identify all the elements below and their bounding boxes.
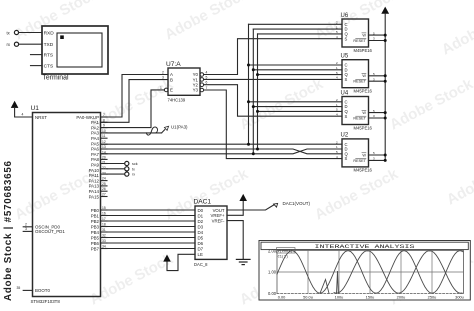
svg-text:RTS: RTS xyxy=(44,52,54,58)
svg-text:Adobe Stock: Adobe Stock xyxy=(444,150,474,208)
svg-text:D4: D4 xyxy=(198,230,204,235)
svg-text:D5: D5 xyxy=(198,235,204,240)
svg-text:U1: U1 xyxy=(31,105,40,112)
svg-text:S: S xyxy=(345,156,348,161)
scope trace C1 glitch xyxy=(320,271,338,293)
svg-text:D7: D7 xyxy=(198,246,204,251)
wire VREF+ to VCC xyxy=(227,201,243,216)
wire Y3 to U2 S xyxy=(204,90,342,159)
wire VREF- to ground xyxy=(227,221,243,260)
svg-text:rx: rx xyxy=(132,173,135,177)
svg-text:W: W xyxy=(362,74,366,78)
svg-text:21: 21 xyxy=(102,161,106,165)
svg-text:CTS: CTS xyxy=(44,63,54,69)
svg-text:D1: D1 xyxy=(198,213,204,218)
svg-text:DAC_8: DAC_8 xyxy=(194,262,208,267)
svg-text:rx: rx xyxy=(7,42,11,47)
svg-text:D3: D3 xyxy=(198,224,204,229)
svg-text:35: 35 xyxy=(17,286,21,290)
svg-text:LE: LE xyxy=(198,252,203,257)
node rx terminal PA11 xyxy=(125,172,129,176)
svg-text:PB3: PB3 xyxy=(91,224,100,229)
wire PA5 sck row to U2 C xyxy=(101,143,343,145)
svg-text:PA15: PA15 xyxy=(89,194,100,199)
svg-text:4: 4 xyxy=(206,71,208,75)
svg-text:RESET: RESET xyxy=(353,159,366,163)
svg-text:W: W xyxy=(362,111,366,115)
svg-text:RXD: RXD xyxy=(44,30,55,36)
svg-text:M45PE16: M45PE16 xyxy=(354,89,373,94)
wire Y2 to U4 S xyxy=(204,85,342,117)
svg-text:PA4: PA4 xyxy=(91,136,100,141)
wire LE to VCC arrow xyxy=(167,254,195,270)
U7 pin labels xyxy=(170,72,173,92)
scope plot frame xyxy=(277,251,464,294)
U7 E inverter bubble xyxy=(164,88,168,92)
wire U5 D feed xyxy=(253,69,342,71)
U7 Y0 bubble xyxy=(200,73,204,77)
U1 pin labels right PA0..PA15 PB0..PB7 xyxy=(76,115,99,252)
svg-text:34: 34 xyxy=(102,245,106,249)
scope gridlines xyxy=(277,251,464,294)
svg-text:0.00: 0.00 xyxy=(278,295,286,300)
svg-text:PA6: PA6 xyxy=(91,147,100,152)
svg-text:PB4: PB4 xyxy=(91,230,100,235)
svg-text:E: E xyxy=(170,88,173,93)
scope x axis labels xyxy=(278,295,464,300)
svg-text:1.00: 1.00 xyxy=(268,270,277,275)
node tx terminal xyxy=(14,30,18,34)
offpage squiggle U1(PA3) xyxy=(146,127,165,135)
svg-text:PA3: PA3 xyxy=(91,131,100,136)
svg-text:S: S xyxy=(345,77,348,82)
svg-text:100u: 100u xyxy=(335,295,344,300)
scope window frame xyxy=(259,241,470,301)
svg-text:6: 6 xyxy=(206,81,208,85)
flash U2 xyxy=(336,133,385,173)
wire U6 C feed xyxy=(249,23,343,25)
svg-text:3: 3 xyxy=(25,227,27,231)
wire tx to RXD xyxy=(19,32,42,34)
wire OSCIN_PD0 stub pin 2 xyxy=(23,226,32,228)
wire PA7 row crossover to U2 D xyxy=(101,149,343,154)
svg-text:PA11: PA11 xyxy=(89,173,100,178)
U7 Y1 bubble xyxy=(200,78,204,82)
svg-text:2: 2 xyxy=(162,71,164,75)
wire VOUT to offpage xyxy=(227,205,274,210)
wire VCC to NRST pin 4 xyxy=(15,108,33,117)
scope legend xyxy=(277,248,296,253)
svg-text:D2: D2 xyxy=(198,219,204,224)
svg-text:PA13: PA13 xyxy=(89,184,100,189)
svg-text:VREF-: VREF- xyxy=(212,218,225,223)
U7 input pin numbers 2 3 1 xyxy=(160,71,164,90)
node tx terminal PA10 xyxy=(125,167,129,171)
svg-text:Adobe Stock: Adobe Stock xyxy=(237,75,327,133)
svg-text:U7:A: U7:A xyxy=(166,61,181,68)
svg-text:3: 3 xyxy=(162,76,164,80)
svg-text:U1(PA3): U1(PA3) xyxy=(171,125,188,130)
svg-text:M45PE16: M45PE16 xyxy=(354,125,373,130)
node rx terminal xyxy=(14,42,18,46)
wire U6 D feed xyxy=(253,28,342,30)
power symbol VCC at VREF+ xyxy=(240,195,247,201)
svg-text:S: S xyxy=(345,114,348,119)
U7 Y3 bubble xyxy=(200,88,204,92)
svg-text:32: 32 xyxy=(102,234,106,238)
svg-text:PB0: PB0 xyxy=(91,208,100,213)
svg-text:4: 4 xyxy=(22,113,24,117)
svg-text:PB6: PB6 xyxy=(91,241,100,246)
scope y axis labels xyxy=(268,248,277,296)
svg-text:Adobe Stock: Adobe Stock xyxy=(439,0,474,58)
svg-text:PA9: PA9 xyxy=(91,163,100,168)
svg-text:U5: U5 xyxy=(341,54,349,60)
svg-text:M45PE16: M45PE16 xyxy=(354,48,373,53)
wire Y1 to U5 S xyxy=(204,78,342,80)
svg-text:10: 10 xyxy=(102,129,106,133)
svg-text:tx: tx xyxy=(132,167,135,171)
wire PB6 to D6 xyxy=(101,242,196,244)
svg-text:Adobe Stock: Adobe Stock xyxy=(312,0,402,44)
U7 output pin numbers 4 5 6 7 xyxy=(206,71,208,91)
wire PA3 to offpage xyxy=(101,132,162,134)
svg-text:12: 12 xyxy=(102,140,106,144)
svg-text:tx: tx xyxy=(7,30,11,35)
wire PB0 to D0 xyxy=(101,209,196,211)
mcu U1 box xyxy=(33,113,101,297)
svg-text:24: 24 xyxy=(102,177,106,181)
svg-text:STM32F103T8: STM32F103T8 xyxy=(31,299,61,304)
svg-text:W: W xyxy=(362,153,366,157)
svg-text:U6: U6 xyxy=(341,13,349,19)
svg-text:Y2: Y2 xyxy=(193,82,199,87)
svg-text:26: 26 xyxy=(102,187,106,191)
decoder U7:A box xyxy=(168,68,200,95)
svg-text:Adobe Stock: Adobe Stock xyxy=(162,0,252,44)
svg-text:OSCOUT_PD1: OSCOUT_PD1 xyxy=(35,229,65,234)
svg-text:18: 18 xyxy=(102,223,106,227)
svg-text:S: S xyxy=(345,36,348,41)
svg-text:PA0-WKUP: PA0-WKUP xyxy=(76,115,99,120)
dac DAC1 box xyxy=(195,206,227,259)
svg-text:Adobe Stock: Adobe Stock xyxy=(387,75,474,133)
svg-text:NRST: NRST xyxy=(35,115,47,120)
svg-text:0.00: 0.00 xyxy=(268,291,277,296)
scope trace C1 sine xyxy=(334,251,462,293)
svg-text:33: 33 xyxy=(102,239,106,243)
terminal TERM1 xyxy=(42,26,108,74)
scope trace V(VOUT) xyxy=(277,251,463,293)
wire BOOT0 stub pin 35 xyxy=(23,289,32,291)
svg-text:Terminal: Terminal xyxy=(42,75,69,82)
U1 right pin stubs xyxy=(101,117,108,249)
svg-text:150u: 150u xyxy=(366,295,375,300)
svg-text:Adobe Stock: Adobe Stock xyxy=(312,165,402,223)
svg-text:7: 7 xyxy=(206,86,208,90)
wire PA6 row crossover to U2 Q xyxy=(101,149,343,154)
flash U5 xyxy=(336,54,385,94)
svg-text:PA5: PA5 xyxy=(91,141,100,146)
U1 pin labels left xyxy=(35,115,65,293)
svg-text:sck: sck xyxy=(132,162,138,166)
overbars on W and RESET labels xyxy=(356,33,366,159)
svg-text:20: 20 xyxy=(102,155,106,159)
svg-text:9: 9 xyxy=(103,124,105,128)
wire PA0 to U7 A xyxy=(101,75,169,118)
wire PB7 to D7 xyxy=(101,248,196,250)
svg-text:PB1: PB1 xyxy=(91,213,100,218)
junction dots on signal buses xyxy=(247,64,259,156)
svg-text:D6: D6 xyxy=(198,241,204,246)
svg-text:PA2: PA2 xyxy=(91,125,100,130)
ground xyxy=(236,259,250,264)
svg-text:PA1: PA1 xyxy=(91,120,100,125)
svg-text:PA7: PA7 xyxy=(91,152,100,157)
svg-text:22: 22 xyxy=(102,166,106,170)
svg-text:16: 16 xyxy=(102,212,106,216)
svg-text:M45PE16: M45PE16 xyxy=(354,168,373,173)
svg-text:RESET: RESET xyxy=(353,80,366,84)
wire sck bus vertical C xyxy=(248,24,250,144)
svg-text:PB7: PB7 xyxy=(91,246,100,251)
junction dots on VCC bus xyxy=(384,34,387,162)
svg-text:D0: D0 xyxy=(198,208,204,213)
svg-text:8: 8 xyxy=(103,118,105,122)
wire U4 D feed xyxy=(253,106,342,108)
DAC1 pin labels xyxy=(198,208,204,257)
svg-text:1: 1 xyxy=(160,86,162,90)
svg-text:DAC1: DAC1 xyxy=(194,199,212,206)
svg-text:U2: U2 xyxy=(341,133,349,139)
svg-text:RESET: RESET xyxy=(353,117,366,121)
offpage arrow DAC1(VOUT) xyxy=(274,203,278,207)
svg-text:74HC139: 74HC139 xyxy=(168,97,186,102)
svg-text:31: 31 xyxy=(102,228,106,232)
svg-text:PB2: PB2 xyxy=(91,219,100,224)
wire PB5 to D5 xyxy=(101,237,196,239)
svg-text:23: 23 xyxy=(102,171,106,175)
svg-text:PA10: PA10 xyxy=(89,168,100,173)
wire Y0 to U6 S xyxy=(204,39,342,75)
svg-text:2.00: 2.00 xyxy=(268,248,277,253)
wire U5 Q feed xyxy=(258,74,343,76)
svg-text:RESET: RESET xyxy=(353,39,366,43)
svg-text:B: B xyxy=(170,77,173,82)
wire PB1 to D1 xyxy=(101,215,196,217)
wire PB2 to D2 xyxy=(101,220,196,222)
wire PA2 to U7 E xyxy=(101,90,165,128)
U1 right pin numbers xyxy=(102,113,106,249)
wire mosi bus vertical D xyxy=(252,29,254,154)
svg-text:27: 27 xyxy=(102,193,106,197)
svg-text:Adobe Stock | #570683656: Adobe Stock | #570683656 xyxy=(3,160,14,301)
svg-text:VREF+: VREF+ xyxy=(211,213,225,218)
wire PA1 to U7 B xyxy=(101,80,169,123)
power symbol VCC flash bus xyxy=(382,7,389,13)
wire RTS stub xyxy=(31,54,43,56)
svg-text:PA14: PA14 xyxy=(89,189,100,194)
wire U5 C feed xyxy=(249,64,343,66)
svg-text:U4: U4 xyxy=(341,90,349,96)
wire U4 C feed xyxy=(249,101,343,103)
svg-text:25: 25 xyxy=(102,182,106,186)
wire PB3 to D3 xyxy=(101,226,196,228)
svg-text:W: W xyxy=(362,34,366,38)
U7 Y2 bubble xyxy=(200,83,204,87)
svg-text:7: 7 xyxy=(103,113,105,117)
flash U4 xyxy=(336,90,385,130)
svg-text:11: 11 xyxy=(102,134,106,138)
svg-text:300u: 300u xyxy=(455,295,464,300)
wire rx to TXD xyxy=(19,43,42,45)
svg-text:Y3: Y3 xyxy=(193,88,199,93)
wire VCC bus vertical xyxy=(384,14,386,161)
svg-text:PA8: PA8 xyxy=(91,157,100,162)
node sck terminal PA9 xyxy=(125,161,129,165)
svg-text:50.0u: 50.0u xyxy=(303,295,313,300)
wire U4 Q feed xyxy=(258,110,343,112)
svg-text:DAC1(VOUT): DAC1(VOUT) xyxy=(283,201,311,206)
svg-text:250u: 250u xyxy=(428,295,437,300)
wire CTS stub xyxy=(31,65,43,67)
svg-text:BOOT0: BOOT0 xyxy=(35,288,50,293)
wire U6 Q feed xyxy=(258,33,343,35)
power symbol VCC at NRST xyxy=(11,101,18,107)
wire miso bus vertical Q xyxy=(257,34,259,149)
svg-text:2: 2 xyxy=(25,223,27,227)
power symbol VCC at LE xyxy=(164,255,171,261)
svg-text:PA12: PA12 xyxy=(89,178,100,183)
svg-text:TXD: TXD xyxy=(44,42,54,48)
flash U6 xyxy=(336,13,385,53)
scope title bar xyxy=(261,242,468,249)
svg-text:17: 17 xyxy=(102,217,106,221)
svg-text:200u: 200u xyxy=(397,295,406,300)
wire OSCOUT_PD1 stub pin 3 xyxy=(23,230,32,232)
wire PB4 to D4 xyxy=(101,231,196,233)
svg-text:INTERACTIVE ANALYSIS: INTERACTIVE ANALYSIS xyxy=(315,244,415,250)
svg-text:15: 15 xyxy=(102,206,106,210)
svg-text:PB5: PB5 xyxy=(91,235,100,240)
